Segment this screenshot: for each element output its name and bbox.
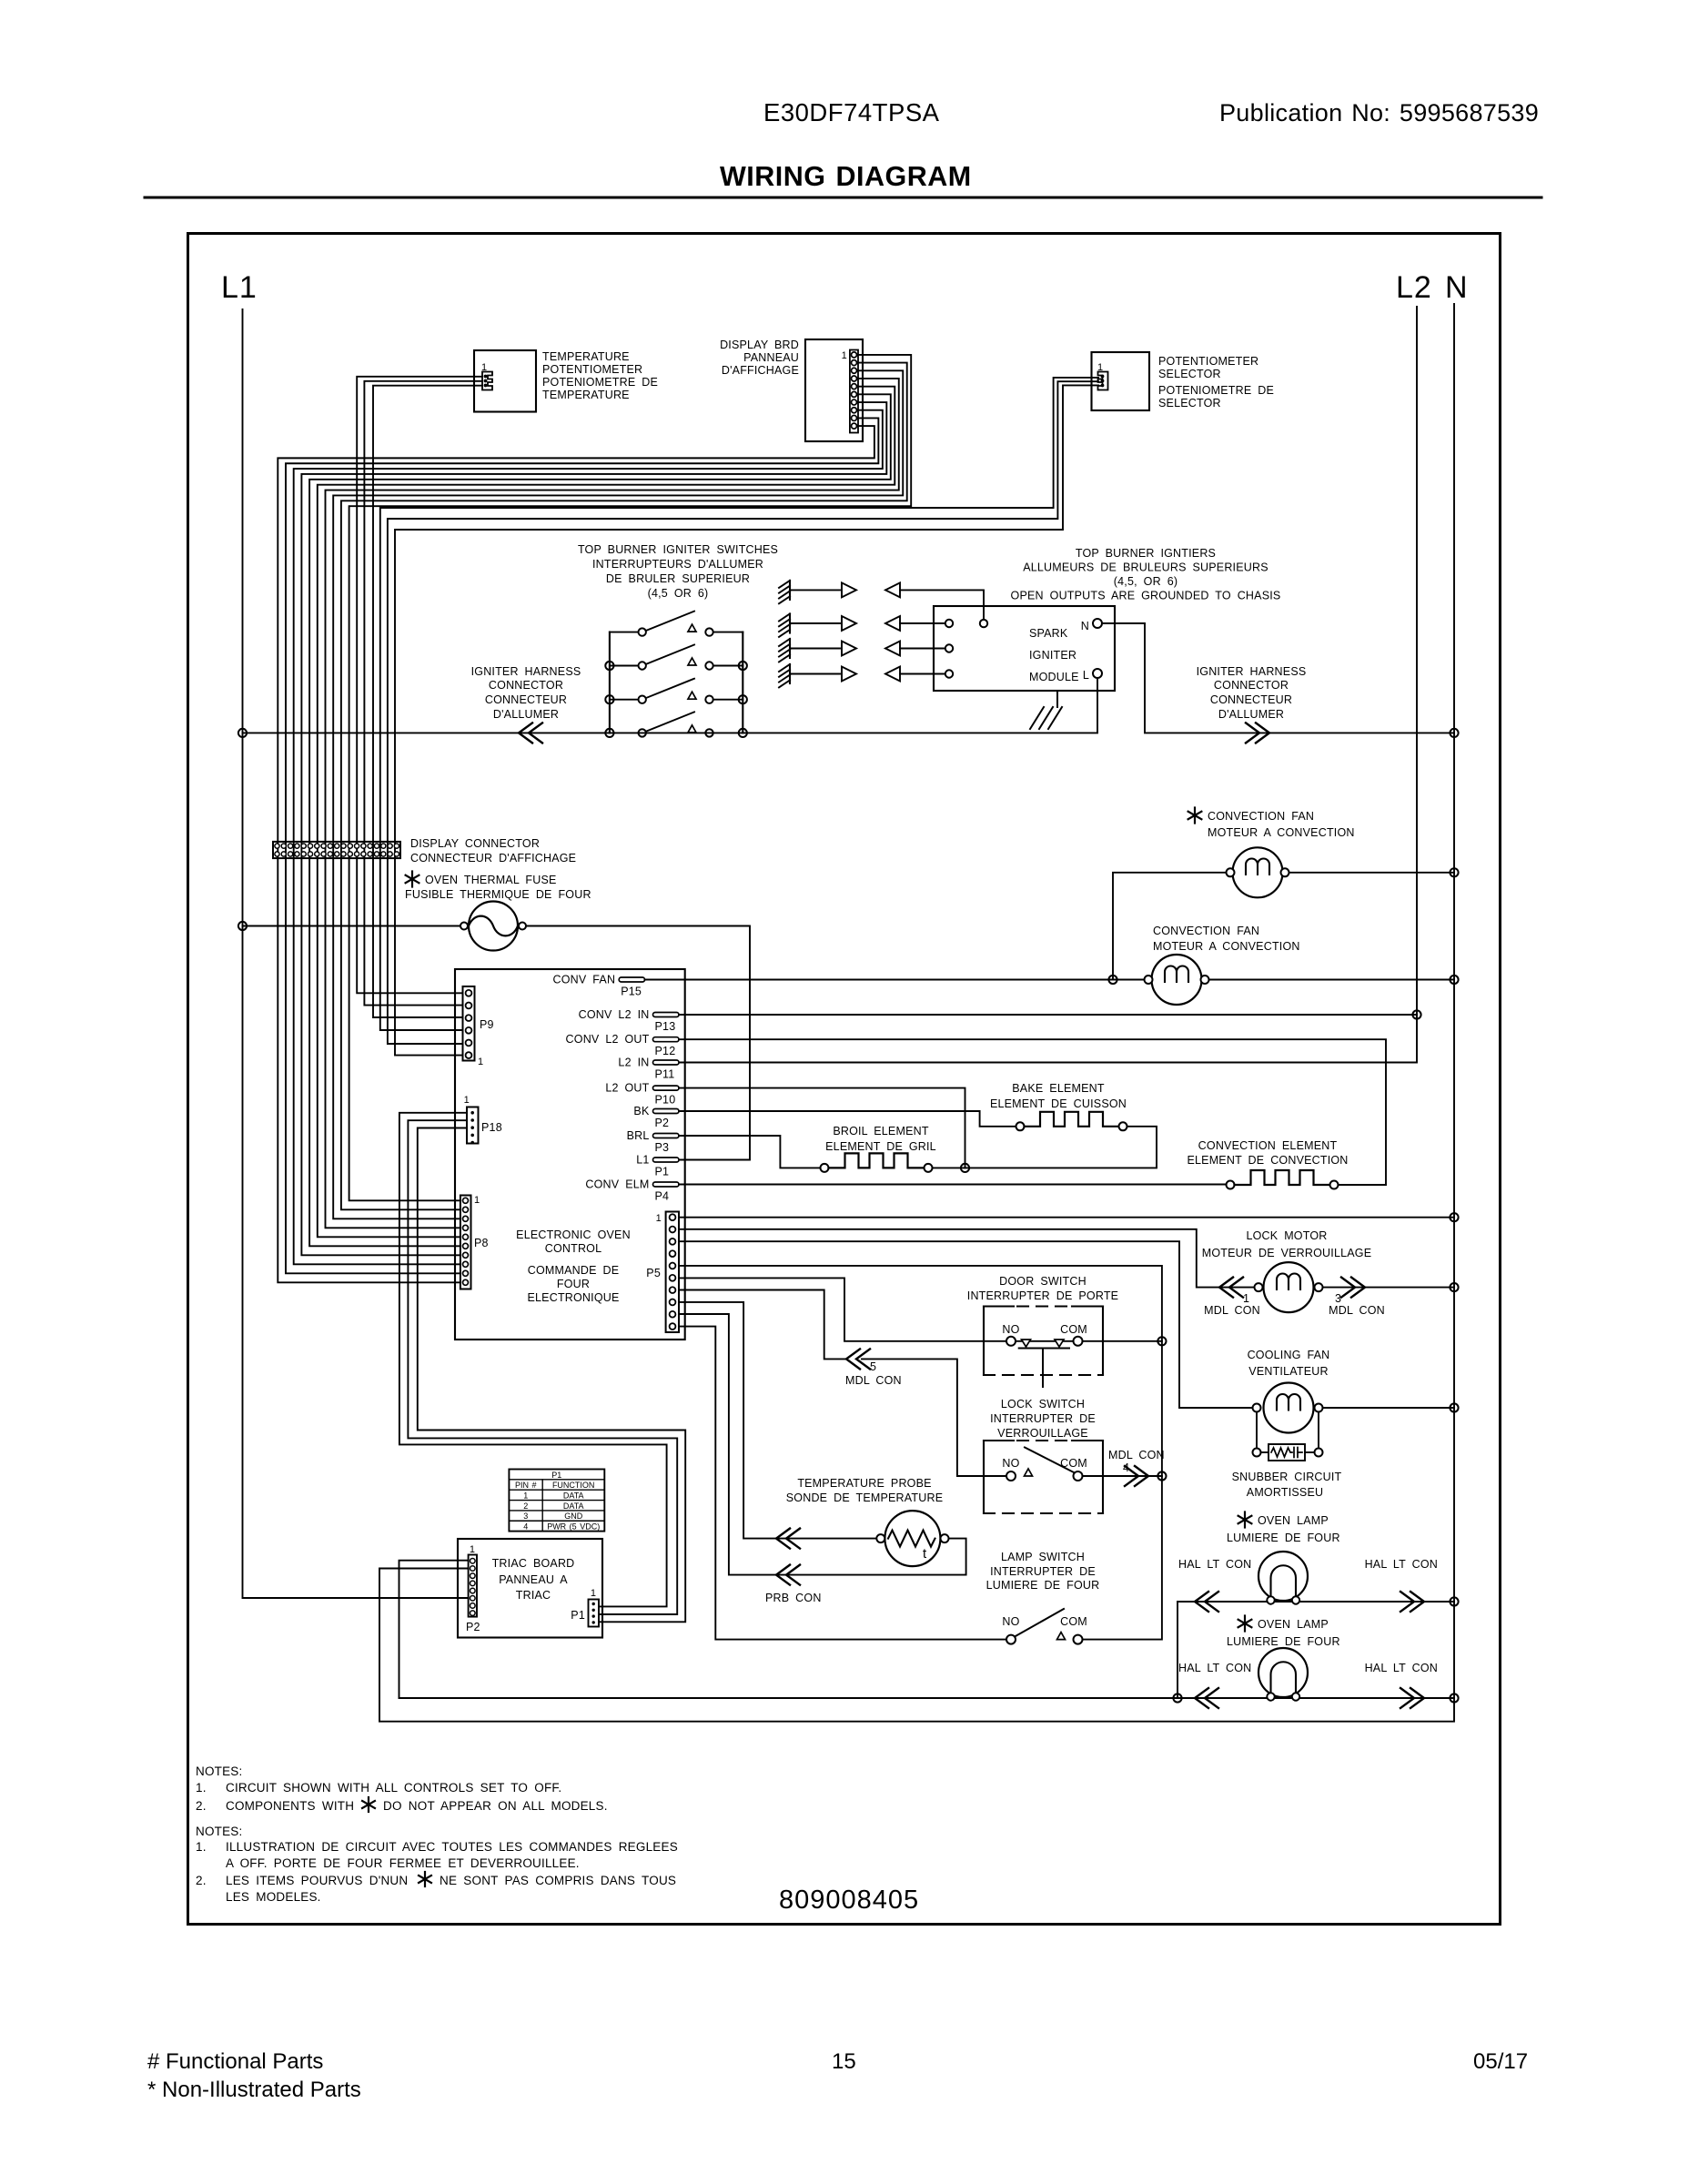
- svg-text:HAL LT CON: HAL LT CON: [1365, 1558, 1438, 1571]
- svg-text:GND: GND: [564, 1512, 583, 1521]
- wire P5 pin1 to N: [679, 1217, 1454, 1218]
- display board connector strip: [850, 350, 858, 433]
- junction oven lamp 1 at N: [1450, 1597, 1458, 1605]
- igniter output arrow pair row 3: [790, 648, 840, 650]
- svg-text:MDL CON: MDL CON: [845, 1374, 902, 1387]
- wire door switch row to rail: [1006, 1340, 1162, 1342]
- svg-text:BROIL ELEMENT: BROIL ELEMENT: [833, 1125, 929, 1137]
- svg-text:4: 4: [523, 1522, 528, 1532]
- svg-text:P4: P4: [655, 1190, 670, 1203]
- svg-text:SNUBBER CIRCUIT: SNUBBER CIRCUIT: [1232, 1471, 1342, 1483]
- svg-text:CONNECTEUR: CONNECTEUR: [485, 693, 567, 706]
- svg-text:# Functional Parts: # Functional Parts: [147, 2049, 323, 2074]
- wire P5 pin6 to door switch: [679, 1278, 1006, 1340]
- svg-text:MDL CON: MDL CON: [1108, 1449, 1165, 1461]
- svg-text:CONVECTION FAN: CONVECTION FAN: [1153, 925, 1259, 937]
- lamp switch blade: [1015, 1609, 1064, 1637]
- svg-text:1: 1: [1243, 1292, 1249, 1305]
- temperature potentiometer box: [474, 350, 536, 412]
- wire display board pin 6: [309, 394, 891, 1246]
- title underline rule: [145, 197, 1541, 199]
- wire oven lamp 1 row: [1177, 1602, 1178, 1698]
- svg-text:P18: P18: [481, 1121, 502, 1134]
- svg-text:DATA: DATA: [563, 1491, 584, 1500]
- svg-text:N: N: [1081, 620, 1089, 632]
- igniter output arrow pair row 1: [790, 589, 840, 591]
- igniter switch right bus: [742, 632, 743, 733]
- svg-text:1: 1: [464, 1095, 470, 1106]
- broil element: [821, 1164, 829, 1172]
- svg-text:1: 1: [478, 1057, 483, 1067]
- chevron PRB CON upper: [776, 1529, 790, 1549]
- svg-text:3: 3: [1335, 1292, 1341, 1305]
- svg-text:D'AFFICHAGE: D'AFFICHAGE: [722, 364, 799, 377]
- svg-text:LUMIERE DE FOUR: LUMIERE DE FOUR: [1227, 1532, 1340, 1544]
- svg-text:LOCK SWITCH: LOCK SWITCH: [1001, 1398, 1085, 1410]
- svg-text:Publication No: 5995687539: Publication No: 5995687539: [1219, 99, 1539, 126]
- svg-text:OVEN THERMAL FUSE: OVEN THERMAL FUSE: [425, 874, 557, 886]
- svg-text:CONVECTION ELEMENT: CONVECTION ELEMENT: [1198, 1139, 1338, 1152]
- wire igniter row 2 to spark module pin: [900, 622, 945, 624]
- svg-text:IGNITER HARNESS: IGNITER HARNESS: [1197, 665, 1307, 678]
- wire L1 rail: [243, 309, 469, 1598]
- lock motor: [1264, 1262, 1314, 1312]
- oven lamp terminals: [1267, 1596, 1274, 1603]
- svg-text:P3: P3: [655, 1141, 670, 1154]
- svg-text:L2: L2: [1396, 270, 1432, 305]
- wire display board pin 9: [286, 418, 878, 1273]
- oven lamp 1 label (non-illustrated): [1244, 1512, 1246, 1528]
- wire display board pin 3: [333, 370, 903, 1218]
- igniter output arrow pair row 2: [790, 622, 840, 624]
- wire oven lamp 2 row: [399, 1697, 1455, 1699]
- wire display board pin 2: [341, 363, 907, 1210]
- display board box: [805, 339, 863, 441]
- svg-text:SPARK: SPARK: [1029, 627, 1068, 640]
- snubber circuit parallel taps: [1256, 1412, 1258, 1450]
- svg-text:P8: P8: [474, 1237, 489, 1249]
- wire P5 pin10 to lamp switch: [679, 1327, 1006, 1640]
- svg-text:HAL LT CON: HAL LT CON: [1178, 1558, 1251, 1571]
- wire main harness L1 to spark L: [243, 678, 1098, 733]
- display connector box: [273, 842, 400, 858]
- convection element: [1227, 1181, 1235, 1189]
- wire display board pin 8: [294, 410, 883, 1265]
- electronic oven control box: [455, 969, 685, 1340]
- svg-text:POTENIOMETRE DE: POTENIOMETRE DE: [1158, 384, 1274, 397]
- svg-text:CONV ELM: CONV ELM: [585, 1178, 649, 1191]
- wire N rail: [379, 304, 1454, 1722]
- svg-text:TEMPERATURE: TEMPERATURE: [542, 389, 630, 401]
- svg-text:INTERRUPTEURS D'ALLUMER: INTERRUPTEURS D'ALLUMER: [592, 558, 763, 571]
- igniter output arrow pair row 4: [790, 673, 840, 675]
- junction on L1 at harness wire: [238, 729, 247, 737]
- wire triac P2 pin1 to oven lamp row: [399, 1561, 469, 1698]
- svg-text:ILLUSTRATION DE CIRCUIT AVEC T: ILLUSTRATION DE CIRCUIT AVEC TOUTES LES …: [226, 1840, 678, 1854]
- EOC stub P10 (L2 OUT): [653, 1086, 680, 1090]
- triac board box: [458, 1539, 602, 1638]
- svg-text:05/17: 05/17: [1473, 2049, 1528, 2074]
- igniter switch row 1: [610, 632, 639, 633]
- svg-text:PIN #: PIN #: [515, 1481, 537, 1490]
- wires P18 to triac board P1: [399, 1113, 667, 1607]
- svg-text:HAL LT CON: HAL LT CON: [1178, 1662, 1251, 1674]
- svg-text:POTENTIOMETER: POTENTIOMETER: [1158, 355, 1258, 368]
- svg-text:IGNITER: IGNITER: [1029, 649, 1076, 662]
- oven lamp 2 symbol: [1258, 1648, 1308, 1697]
- svg-text:ELEMENT DE CUISSON: ELEMENT DE CUISSON: [990, 1097, 1127, 1110]
- igniter switch row 2: [610, 665, 639, 667]
- wire P5 pin7 to 5 MDL CON: [679, 1290, 846, 1360]
- svg-text:INTERRUPTER DE: INTERRUPTER DE: [990, 1412, 1096, 1425]
- chassis ground hatch row 4: [789, 664, 791, 683]
- svg-text:TOP BURNER IGNITER SWITCHES: TOP BURNER IGNITER SWITCHES: [578, 543, 778, 556]
- svg-text:HAL LT CON: HAL LT CON: [1365, 1662, 1438, 1674]
- connector P18: [467, 1107, 479, 1144]
- wire display board pin 1: [349, 355, 912, 1200]
- lock switch blade: [1025, 1448, 1075, 1473]
- svg-text:SELECTOR: SELECTOR: [1158, 368, 1221, 380]
- EOC stub P11 (L2 IN): [653, 1060, 680, 1065]
- svg-text:TRIAC: TRIAC: [516, 1589, 551, 1602]
- svg-text:ELECTRONIQUE: ELECTRONIQUE: [527, 1291, 619, 1304]
- svg-text:1: 1: [474, 1195, 480, 1206]
- wire P5 pin5 switch common rail: [679, 1266, 1162, 1640]
- svg-text:COM: COM: [1060, 1323, 1087, 1336]
- svg-text:COMPONENTS WITH: COMPONENTS WITH: [226, 1799, 354, 1813]
- junction on L1 at fuse wire: [238, 922, 247, 930]
- wire display board pin 5: [318, 387, 895, 1238]
- svg-text:LUMIERE DE FOUR: LUMIERE DE FOUR: [986, 1579, 1100, 1592]
- junction conv fan parallel tap: [1108, 976, 1117, 984]
- svg-text:VERROUILLAGE: VERROUILLAGE: [997, 1427, 1088, 1440]
- svg-text:PWR (5 VDC): PWR (5 VDC): [547, 1522, 600, 1532]
- connector P5: [666, 1212, 679, 1333]
- svg-text:ALLUMEURS DE BRULEURS SUPERIEU: ALLUMEURS DE BRULEURS SUPERIEURS: [1023, 561, 1269, 574]
- svg-text:INTERRUPTER DE: INTERRUPTER DE: [990, 1565, 1096, 1578]
- junction oven lamp 2 at N: [1450, 1694, 1458, 1702]
- svg-text:P5: P5: [646, 1267, 661, 1279]
- convection fan 2 motor: [1152, 955, 1202, 1005]
- triac connector P2: [469, 1555, 477, 1617]
- svg-text:CONV FAN: CONV FAN: [552, 974, 615, 986]
- svg-text:POTENTIOMETER: POTENTIOMETER: [542, 363, 642, 376]
- svg-text:VENTILATEUR: VENTILATEUR: [1248, 1365, 1328, 1378]
- junction lock switch at rail: [1157, 1471, 1166, 1480]
- svg-text:809008405: 809008405: [779, 1886, 919, 1915]
- wire P5 pin9 probe return: [679, 1314, 966, 1575]
- svg-text:PANNEAU: PANNEAU: [743, 351, 799, 364]
- wire 5 MDL CON to lock switch NO: [862, 1359, 1006, 1476]
- chassis ground hatch row 2: [789, 614, 791, 633]
- wire conv fan 1 to N: [1289, 872, 1455, 874]
- chassis ground hatch row 3: [789, 639, 791, 658]
- wire conv fan 1 branch: [1113, 873, 1227, 980]
- svg-text:CONNECTOR: CONNECTOR: [489, 679, 563, 692]
- svg-text:SONDE DE TEMPERATURE: SONDE DE TEMPERATURE: [786, 1491, 943, 1504]
- svg-text:P12: P12: [655, 1045, 676, 1057]
- connector P8: [460, 1196, 471, 1289]
- EOC stub P4 (CONV ELM): [653, 1182, 680, 1187]
- svg-text:CONVECTION FAN: CONVECTION FAN: [1208, 810, 1314, 823]
- svg-text:P1: P1: [571, 1609, 585, 1622]
- svg-text:CIRCUIT SHOWN WITH ALL CONTROL: CIRCUIT SHOWN WITH ALL CONTROLS SET TO O…: [226, 1781, 561, 1795]
- svg-text:TRIAC BOARD: TRIAC BOARD: [492, 1557, 575, 1570]
- svg-text:P2: P2: [466, 1621, 480, 1633]
- svg-text:15: 15: [832, 2049, 856, 2074]
- svg-text:LOCK MOTOR: LOCK MOTOR: [1246, 1229, 1327, 1242]
- svg-text:MOTEUR DE VERROUILLAGE: MOTEUR DE VERROUILLAGE: [1202, 1247, 1372, 1259]
- wire CONV L2 OUT P12 to convection element: [679, 1039, 1386, 1185]
- svg-text:MOTEUR A CONVECTION: MOTEUR A CONVECTION: [1153, 940, 1300, 953]
- svg-text:CONTROL: CONTROL: [545, 1242, 602, 1255]
- svg-text:ELEMENT DE CONVECTION: ELEMENT DE CONVECTION: [1187, 1154, 1348, 1167]
- chevron 4 MDL CON: [1135, 1466, 1148, 1486]
- svg-text:E30DF74TPSA: E30DF74TPSA: [763, 98, 940, 126]
- igniter switch row 4: [646, 712, 695, 732]
- svg-text:3: 3: [523, 1512, 528, 1521]
- convection fan 1 motor: [1233, 847, 1283, 897]
- svg-text:L2 OUT: L2 OUT: [605, 1082, 649, 1095]
- junction door switch at rail: [1157, 1337, 1166, 1345]
- svg-text:2.: 2.: [196, 1874, 207, 1887]
- svg-text:LES MODELES.: LES MODELES.: [226, 1890, 321, 1904]
- chevron 5 MDL CON: [846, 1349, 860, 1369]
- svg-text:NOTES:: NOTES:: [196, 1764, 242, 1778]
- svg-text:4: 4: [1123, 1461, 1129, 1474]
- lock switch box: [984, 1440, 1014, 1441]
- svg-text:BRL: BRL: [627, 1129, 650, 1142]
- svg-text:MDL CON: MDL CON: [1329, 1304, 1385, 1317]
- svg-text:t: t: [923, 1546, 927, 1562]
- oven lamp 1 chevrons: [1195, 1592, 1208, 1612]
- svg-text:FUSIBLE THERMIQUE DE FOUR: FUSIBLE THERMIQUE DE FOUR: [405, 888, 591, 901]
- EOC stub P13 (CONV L2 IN): [653, 1013, 680, 1017]
- svg-text:2: 2: [523, 1501, 528, 1511]
- junction harness right at N rail: [1450, 729, 1458, 737]
- svg-text:P2: P2: [655, 1117, 670, 1129]
- wire L2 OUT P10 down to element junction: [679, 1088, 965, 1168]
- svg-text:CONNECTOR: CONNECTOR: [1214, 679, 1289, 692]
- svg-text:FUNCTION: FUNCTION: [552, 1481, 595, 1490]
- svg-text:(4,5, OR 6): (4,5, OR 6): [1114, 575, 1178, 588]
- EOC stub P15 (CONV FAN): [619, 977, 644, 982]
- oven lamp 2 label (non-illustrated): [1244, 1616, 1246, 1632]
- EOC stub P3 (BRL): [653, 1134, 680, 1138]
- chevron 3 MDL CON: [1351, 1278, 1365, 1298]
- oven lamp 1 symbol: [1258, 1552, 1308, 1601]
- bake element: [1016, 1122, 1025, 1130]
- svg-text:MOTEUR A CONVECTION: MOTEUR A CONVECTION: [1208, 826, 1355, 839]
- wire spark N to igniter harness right: [1102, 623, 1454, 733]
- potentiometer selector box: [1092, 352, 1150, 410]
- svg-text:COMMANDE DE: COMMANDE DE: [528, 1264, 620, 1277]
- svg-text:5: 5: [870, 1360, 876, 1373]
- svg-text:1: 1: [591, 1588, 596, 1599]
- svg-text:LES ITEMS POURVUS D'NUN: LES ITEMS POURVUS D'NUN: [226, 1874, 408, 1887]
- wire igniter row 3 to spark module pin: [900, 648, 945, 650]
- chevron PRB CON lower: [776, 1565, 790, 1585]
- oven lamp 2 chevrons: [1195, 1688, 1208, 1708]
- svg-text:ELEMENT DE GRIL: ELEMENT DE GRIL: [825, 1140, 936, 1153]
- spark module chassis ground: [1056, 691, 1058, 707]
- snubber circuit box: [1269, 1444, 1305, 1461]
- svg-text:DISPLAY CONNECTOR: DISPLAY CONNECTOR: [410, 837, 540, 850]
- svg-text:SELECTOR: SELECTOR: [1158, 397, 1221, 409]
- wire P5 pin8 to probe: [679, 1302, 876, 1539]
- wire BRL P3 to broil element: [679, 1136, 821, 1168]
- svg-text:OPEN OUTPUTS ARE GROUNDED TO C: OPEN OUTPUTS ARE GROUNDED TO CHASIS: [1011, 590, 1281, 602]
- svg-text:L1: L1: [221, 270, 258, 305]
- wire L2 rail: [679, 307, 1417, 1063]
- svg-text:BAKE ELEMENT: BAKE ELEMENT: [1012, 1082, 1105, 1095]
- svg-text:NOTES:: NOTES:: [196, 1825, 242, 1838]
- cooling fan motor: [1264, 1383, 1314, 1433]
- svg-text:ELECTRONIC OVEN: ELECTRONIC OVEN: [516, 1228, 631, 1241]
- wire lock switch COM to rail: [1083, 1475, 1162, 1477]
- chassis ground hatch row 1: [789, 581, 791, 600]
- svg-text:LUMIERE DE FOUR: LUMIERE DE FOUR: [1227, 1635, 1340, 1648]
- igniter switch row 3: [610, 699, 639, 701]
- svg-text:1: 1: [470, 1544, 475, 1555]
- wires potentiometer selector to P9 pins 4-6: [380, 378, 1098, 1030]
- wire display board pin 7: [301, 402, 886, 1255]
- svg-text:BK: BK: [633, 1105, 650, 1117]
- svg-text:A OFF. PORTE DE FOUR FERMEE: A OFF. PORTE DE FOUR FERMEE ET DEVERROUI…: [226, 1856, 580, 1870]
- svg-text:P13: P13: [655, 1020, 676, 1033]
- svg-text:MODULE: MODULE: [1029, 671, 1079, 683]
- svg-text:PANNEAU A: PANNEAU A: [499, 1573, 568, 1586]
- svg-text:P1: P1: [655, 1166, 670, 1178]
- svg-text:P10: P10: [655, 1094, 676, 1107]
- triac connector P1: [589, 1600, 600, 1627]
- wire conv fan feed P15: [645, 979, 1146, 981]
- svg-text:L1: L1: [636, 1154, 649, 1167]
- diagram border frame: [188, 234, 1501, 1925]
- connector P9: [463, 986, 475, 1061]
- temperature probe: [884, 1511, 940, 1566]
- svg-text:MDL CON: MDL CON: [1204, 1304, 1260, 1317]
- wire L1 to fuse to EOC P1: [243, 925, 461, 927]
- svg-text:N: N: [1445, 270, 1469, 305]
- svg-text:D'ALLUMER: D'ALLUMER: [493, 708, 559, 721]
- svg-text:NO: NO: [1002, 1457, 1019, 1470]
- svg-text:INTERRUPTER DE PORTE: INTERRUPTER DE PORTE: [967, 1289, 1118, 1302]
- wire conv fan 2 to N: [1209, 979, 1455, 981]
- svg-text:L2 IN: L2 IN: [618, 1057, 649, 1069]
- svg-text:FOUR: FOUR: [557, 1278, 590, 1290]
- svg-text:P11: P11: [655, 1068, 675, 1081]
- svg-text:P9: P9: [480, 1018, 494, 1031]
- EOC stub P1 (L1): [653, 1158, 680, 1162]
- svg-text:1: 1: [523, 1491, 528, 1500]
- svg-text:DATA: DATA: [563, 1501, 584, 1511]
- door switch box: [984, 1305, 1014, 1307]
- P1 pin function table: [509, 1470, 604, 1532]
- igniter harness chevron left: [519, 723, 532, 743]
- svg-text:L: L: [1083, 669, 1089, 682]
- svg-text:DO NOT APPEAR ON ALL MODELS.: DO NOT APPEAR ON ALL MODELS.: [383, 1799, 608, 1813]
- wire display board pin 4: [326, 379, 899, 1228]
- svg-text:1.: 1.: [196, 1840, 207, 1854]
- svg-text:CONNECTEUR: CONNECTEUR: [1210, 693, 1292, 706]
- chevron 1 MDL CON: [1219, 1278, 1233, 1298]
- wire igniter row 1 to spark module top: [900, 590, 984, 623]
- svg-text:1: 1: [656, 1213, 662, 1224]
- svg-text:IGNITER HARNESS: IGNITER HARNESS: [471, 665, 581, 678]
- svg-text:CONV L2 OUT: CONV L2 OUT: [566, 1033, 650, 1046]
- svg-text:NE SONT PAS COMPRIS DANS TOUS: NE SONT PAS COMPRIS DANS TOUS: [440, 1874, 676, 1887]
- wire igniter row 4 to spark module pin: [900, 673, 945, 675]
- EOC stub P2 (BK): [653, 1109, 680, 1114]
- svg-text:LAMP SWITCH: LAMP SWITCH: [1001, 1551, 1085, 1563]
- svg-text:OVEN LAMP: OVEN LAMP: [1258, 1618, 1329, 1631]
- wire P5 pin3 to cooling fan: [679, 1241, 1253, 1408]
- svg-text:2.: 2.: [196, 1799, 207, 1813]
- wire CONV L2 IN P13 to L2: [679, 1014, 1417, 1016]
- wire BK P2 to bake element: [679, 1111, 1016, 1127]
- wire cooling fan to N: [1323, 1407, 1455, 1409]
- wire P5 pin2 to lock motor: [679, 1229, 1254, 1288]
- svg-text:NO: NO: [1002, 1323, 1019, 1336]
- svg-text:COOLING FAN: COOLING FAN: [1248, 1349, 1330, 1361]
- EOC stub P12 (CONV L2 OUT): [653, 1037, 680, 1042]
- wire display board pin 10: [278, 426, 874, 1282]
- svg-text:D'ALLUMER: D'ALLUMER: [1218, 708, 1284, 721]
- svg-text:COM: COM: [1060, 1615, 1087, 1628]
- svg-text:P15: P15: [621, 986, 642, 998]
- wire lock motor to N: [1323, 1287, 1455, 1289]
- svg-text:CONNECTEUR D'AFFICHAGE: CONNECTEUR D'AFFICHAGE: [410, 852, 576, 864]
- svg-text:NO: NO: [1002, 1615, 1019, 1628]
- oven thermal fuse asterisk: [411, 872, 413, 887]
- svg-text:CONV L2 IN: CONV L2 IN: [579, 1008, 650, 1021]
- wire broil to junction and bake return: [933, 1127, 1157, 1168]
- svg-text:AMORTISSEU: AMORTISSEU: [1247, 1486, 1323, 1499]
- thermal fuse symbol: [469, 902, 518, 951]
- igniter switch left bus: [609, 632, 611, 733]
- igniter harness chevron right: [1256, 723, 1269, 743]
- svg-text:WIRING DIAGRAM: WIRING DIAGRAM: [720, 161, 972, 192]
- svg-text:OVEN LAMP: OVEN LAMP: [1258, 1514, 1329, 1527]
- svg-text:(4,5 OR 6): (4,5 OR 6): [648, 587, 709, 600]
- svg-text:* Non-Illustrated Parts: * Non-Illustrated Parts: [147, 2078, 361, 2102]
- svg-text:POTENIOMETRE DE: POTENIOMETRE DE: [542, 376, 658, 389]
- svg-text:TEMPERATURE PROBE: TEMPERATURE PROBE: [797, 1477, 931, 1490]
- wire CONV ELM P4 to convection element: [679, 1184, 1227, 1186]
- svg-text:PRB CON: PRB CON: [765, 1592, 822, 1604]
- svg-text:DISPLAY BRD: DISPLAY BRD: [720, 339, 799, 351]
- junction lamp rows: [1173, 1694, 1181, 1702]
- svg-text:DE BRULER SUPERIEUR: DE BRULER SUPERIEUR: [606, 572, 750, 585]
- convection fan 1 label (non-illustrated): [1194, 808, 1196, 824]
- door switch actuator: [1019, 1348, 1069, 1350]
- junction elements at L2 OUT: [961, 1164, 969, 1172]
- svg-text:TEMPERATURE: TEMPERATURE: [542, 350, 630, 363]
- svg-text:1.: 1.: [196, 1781, 207, 1795]
- wires temperature potentiometer to P9 pins 1-3: [357, 377, 482, 994]
- svg-text:P1: P1: [551, 1471, 561, 1480]
- svg-text:TOP BURNER IGNTIERS: TOP BURNER IGNTIERS: [1076, 547, 1216, 560]
- svg-text:1: 1: [842, 350, 847, 361]
- svg-text:DOOR SWITCH: DOOR SWITCH: [999, 1275, 1087, 1288]
- spark igniter module box: [934, 606, 1115, 691]
